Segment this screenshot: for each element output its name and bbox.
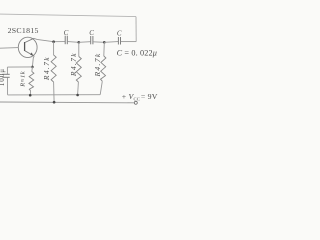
resistor R2 label	[42, 56, 51, 81]
wire base lead	[0, 47, 18, 50]
transistor Q1 collector stroke	[25, 38, 34, 42]
svg-text:R≈1k: R≈1k	[19, 71, 26, 88]
svg-text:100μ: 100μ	[0, 68, 6, 86]
resistor R3 top lead	[78, 42, 80, 56]
resistor R2 zigzag 4.7k	[51, 55, 56, 82]
wire top feedback rail	[0, 14, 136, 17]
wire feedback vertical drop	[135, 17, 137, 42]
transistor Q1 emitter stroke with arrow	[25, 51, 34, 56]
svg-text:C: C	[89, 29, 94, 37]
capacitor C2 plates	[90, 36, 92, 44]
svg-text:R4.7k: R4.7k	[69, 52, 78, 77]
emitter node junction dot	[31, 66, 34, 69]
capacitor C3 plates	[117, 37, 119, 45]
wire C1 to node B	[68, 41, 79, 44]
wire emitter node to bypass cap	[7, 66, 32, 68]
wire upper rail right end up to R4	[99, 94, 101, 96]
resistor R1 label	[19, 71, 26, 88]
resistor R3 label	[69, 52, 78, 77]
resistor R1 zigzag 1k	[29, 72, 34, 91]
junction dot R3 on upper rail	[76, 94, 79, 97]
wire emitter vertical	[32, 56, 34, 67]
svg-text:R4.7k: R4.7k	[93, 52, 102, 77]
Vcc lower rail	[0, 101, 134, 104]
resistor R1 emitter lead	[31, 67, 34, 72]
resistor R3 zigzag 4.7k	[76, 57, 81, 83]
Vcc terminal circle	[134, 101, 137, 104]
svg-text:+ VCC= 9V: + VCC= 9V	[122, 92, 158, 102]
wire bypass cap top lead	[6, 67, 8, 74]
svg-text:R4.7k: R4.7k	[42, 56, 51, 81]
ground/common upper rail	[8, 94, 100, 96]
svg-text:C: C	[64, 29, 69, 37]
resistor R2 top lead	[53, 42, 55, 55]
transistor Q1 circle	[18, 37, 37, 57]
resistor R1 bottom lead	[29, 91, 31, 95]
resistor R4 label	[93, 52, 102, 77]
resistor R3 bottom lead	[77, 82, 80, 95]
svg-text:C = 0. 022μ: C = 0. 022μ	[117, 48, 157, 57]
wire collector to node A	[34, 38, 54, 41]
transistor Q1 base bar	[24, 42, 26, 51]
svg-text:2SC1815: 2SC1815	[8, 26, 39, 35]
capacitor C1 plates	[64, 36, 66, 45]
wire node C to C3	[104, 41, 118, 44]
svg-text:C: C	[117, 30, 122, 38]
junction dot R1 on upper rail	[29, 94, 32, 97]
wire bypass cap bottom lead	[7, 78, 9, 95]
junction dot R2 on Vcc rail	[53, 101, 56, 104]
capacitor CE label (clipped at page edge)	[0, 68, 6, 86]
resistor R4 zigzag 4.7k	[101, 56, 106, 81]
wire node B to C2	[79, 41, 91, 44]
resistor R2 bottom lead	[53, 82, 56, 102]
capacitor CE bypass plates	[2, 73, 9, 75]
resistor R4 top lead	[103, 42, 106, 56]
node C junction dot	[103, 41, 106, 44]
wire node A to C1	[54, 41, 65, 43]
resistor R4 bottom lead	[100, 81, 102, 95]
wire C2 to node C	[93, 41, 104, 44]
node B junction dot	[77, 41, 80, 44]
node A junction dot	[52, 40, 55, 43]
wire C3 to feedback corner	[121, 41, 136, 43]
